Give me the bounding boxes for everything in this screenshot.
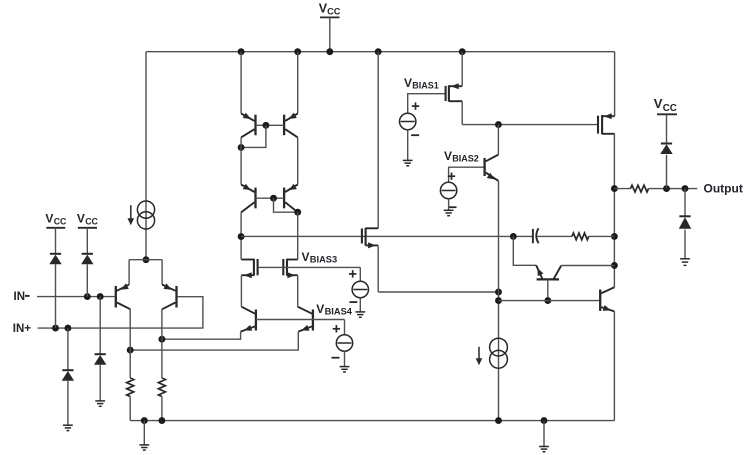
wire D4 anode down (99, 365, 101, 401)
ground G1 (403, 160, 413, 165)
wire R3 to output node (589, 235, 615, 237)
wire IN+ down to D3 (67, 328, 69, 370)
wire VS1 to ground (407, 130, 409, 161)
junction base tie lower (270, 195, 277, 202)
diode D4 (ground to IN-) (94, 354, 106, 365)
junction out/D5 (663, 185, 670, 192)
label VCC output (654, 96, 677, 114)
wire VCC2 to D2 (86, 228, 88, 254)
wire R1 to bottom rail (129, 397, 131, 421)
label VCC top (319, 2, 341, 17)
transistor Q1 input PNP (IN-) (116, 283, 131, 309)
label VBIAS4 (316, 302, 353, 317)
transistor Q10 NPN clamp (536, 265, 561, 279)
diode D6 (ground to output) (679, 216, 691, 229)
svg-text:BIAS4: BIAS4 (325, 307, 353, 317)
transistor Q4 mirror PNP upper-right (284, 113, 298, 138)
transistor Q9 NPN VBIAS2 (485, 155, 499, 181)
wire Q8 emitter to R1 node (130, 332, 298, 351)
wire M1 source to rail (461, 52, 463, 86)
wire D6 anode down (684, 230, 686, 259)
junction Q8emitter/R1 (127, 347, 134, 354)
transistor Q8 NPN second stage right (298, 307, 313, 332)
wire base line down to VS4 (344, 320, 346, 335)
svg-text:CC: CC (85, 216, 98, 226)
voltage source VS1 VBIAS1 (400, 102, 420, 135)
label Output (704, 182, 743, 196)
svg-text:CC: CC (327, 6, 341, 16)
current source I1 (128, 201, 155, 229)
label VBIAS1 (404, 76, 439, 91)
junction Q10base/node B (544, 297, 551, 304)
junction input pair common emitter node (143, 256, 150, 263)
svg-text:CC: CC (54, 216, 67, 226)
junction gate node at left column (238, 233, 245, 240)
svg-text:IN: IN (14, 291, 26, 303)
wire D3 anode down (67, 381, 69, 425)
voltage source VS3 VBIAS3 (349, 270, 368, 302)
svg-text:IN+: IN+ (13, 323, 32, 335)
wire M1 drain down (461, 101, 463, 124)
wire M3 source to node B (378, 291, 498, 293)
ground G6 (95, 401, 105, 406)
wire R2 to bottom rail (161, 397, 163, 421)
wire Q11 emitter down (613, 311, 615, 420)
ground G4 (340, 367, 350, 372)
junction rail/M1 source (459, 48, 466, 55)
junction M2gate/Q9 collector (495, 121, 502, 128)
wire D2 anode to IN- (86, 264, 88, 296)
junction Q7emitter/R2 (158, 336, 165, 343)
diode D1 (IN+ to VCC) (49, 254, 61, 264)
junction IN-/D2 (84, 293, 91, 300)
label VBIAS3 (302, 250, 338, 265)
wire Q3 collector to Q5 emitter (240, 137, 242, 184)
wire rail to Q3 emitter (240, 52, 242, 114)
junction IN-/D4 (97, 293, 104, 300)
ground G3 (355, 312, 365, 317)
wire Q7/Q8 base line to VBIAS4 (256, 319, 345, 321)
junction rail/M3 drain (375, 48, 382, 55)
junction rail/right-mirror column (294, 48, 301, 55)
junction output/comp RC (611, 233, 618, 240)
svg-text:V: V (654, 96, 663, 111)
wire Q7 emitter to R2 node (162, 332, 241, 340)
svg-text:V: V (302, 250, 310, 264)
wire Q2 collector down (161, 309, 163, 378)
junction node B upper (495, 289, 502, 296)
label IN- (14, 291, 30, 303)
wire cap to R3 (537, 235, 572, 237)
wire VCC top rail (146, 51, 615, 53)
capacitor C1 comp (533, 228, 539, 243)
junction node B lower (495, 297, 502, 304)
junction IN+/D1 (52, 325, 59, 332)
transistor Q6 mirror PNP lower-right (284, 184, 298, 213)
junction output/out-line (611, 185, 618, 192)
wire left emitter drop (128, 260, 130, 285)
wire IN- down to D4 (99, 297, 101, 354)
svg-text:V: V (404, 76, 412, 90)
svg-text:BIAS3: BIAS3 (310, 255, 337, 265)
svg-text:V: V (444, 149, 452, 163)
wire IN- net (37, 296, 115, 298)
label VCC left-2 (77, 212, 99, 227)
wire input pair emitter tee (129, 259, 162, 261)
junction bottom/I2 (495, 417, 502, 424)
wire rail right corner down to M2 source (614, 52, 616, 117)
wire Q5/Q6 base tie (256, 197, 285, 199)
wire base tie down to Q6 collector (274, 198, 298, 212)
wire M3 source down (377, 245, 379, 292)
voltage source VS2 VBIAS2 (440, 173, 456, 208)
resistor R2 (158, 378, 165, 397)
junction bottom/G8 (541, 417, 548, 424)
wire VCC to D5 (666, 114, 668, 143)
junction rail/VCC stem (326, 48, 333, 55)
transistor Q2 input PNP (IN+) (162, 283, 177, 309)
svg-text:Output: Output (704, 182, 743, 196)
wire VS4 to ground (344, 351, 346, 366)
wire gate line down to VS3 (359, 267, 361, 281)
wire G8 stem (543, 421, 545, 447)
wire VS2 to Q9 base (449, 167, 485, 182)
svg-text:V: V (45, 212, 53, 226)
junction base tie upper (262, 122, 269, 129)
svg-text:CC: CC (663, 103, 677, 114)
wire output down to D6 (684, 189, 686, 217)
svg-text:BIAS2: BIAS2 (452, 154, 479, 164)
junction out/D6 (682, 185, 689, 192)
power VCC bar left-1 (46, 227, 65, 229)
transistor M5 mosfet right (283, 259, 297, 278)
wire M5 source down to Q8 collector (297, 275, 299, 307)
wire Q9 collector up (497, 125, 499, 155)
voltage source VS4 VBIAS4 (332, 325, 353, 358)
label VBIAS2 (444, 149, 479, 164)
wire node-A gate line (241, 235, 533, 237)
power VCC bar left-2 (78, 227, 97, 229)
wire Q5 collector down to gate node (240, 212, 242, 259)
diode D2 (IN- to VCC) (81, 254, 93, 264)
wire D1 anode to IN+ (55, 264, 57, 328)
label IN+ (13, 323, 32, 335)
wire Q6 collector down to M5 drain (297, 212, 299, 259)
wire VBIAS3 gate line (258, 266, 361, 268)
wire node-A branch to Q10 emitter (513, 236, 536, 265)
wire rail to Q4 emitter (297, 52, 299, 114)
ground G9 (680, 259, 690, 266)
ground G2 (444, 210, 454, 215)
svg-text:BIAS1: BIAS1 (412, 81, 439, 91)
wire output node to R4 (614, 188, 630, 190)
transistor M1 PMOS VBIAS1 (446, 83, 463, 101)
resistor R4 output (631, 185, 649, 192)
wire left column from rail to input pair node (145, 52, 147, 260)
transistor M2 PMOS output (598, 113, 615, 134)
wire M4 source down to Q7 collector (240, 275, 242, 307)
power VCC bar output (657, 113, 677, 115)
junction bottom/G7 (141, 417, 148, 424)
transistor M4 mosfet left (241, 259, 257, 278)
power VCC top symbol (320, 17, 340, 51)
transistor Q5 mirror PNP lower-left (241, 184, 255, 213)
junction rail/left-mirror column (238, 48, 245, 55)
wire base tie down to Q3 collector (241, 125, 266, 147)
ground G5 (63, 425, 73, 430)
wire Q4 collector to Q6 emitter (297, 137, 299, 184)
wire bottom ground rail (130, 420, 614, 422)
wire M1 drain to M2 gate (462, 124, 598, 126)
wire IN+ net to Q2 base loop (38, 297, 203, 328)
transistor Q11 NPN output (600, 287, 614, 311)
diode D3 (ground to IN+) (62, 370, 74, 381)
ground G8 (539, 447, 549, 452)
transistor Q7 NPN second stage left (241, 307, 256, 332)
wire D5 anode to output (666, 155, 668, 189)
resistor R3 comp (572, 233, 589, 240)
wire VS1 to M1 gate (408, 94, 446, 114)
wire VCC1 to D1 (55, 228, 57, 254)
wire Q10 base down (547, 279, 549, 300)
wire Q3/Q4 base tie (256, 124, 285, 126)
wire M2 drain down output node (613, 134, 615, 287)
junction Q6 collector node (294, 209, 301, 216)
svg-text:V: V (316, 302, 324, 316)
diode D5 (output to VCC) (660, 144, 672, 155)
wire Q1 collector down (129, 309, 131, 378)
wire Q9 emitter down through current source I2 to bottom rail (498, 181, 500, 421)
transistor Q3 mirror PNP upper-left (241, 113, 255, 138)
label VCC left-1 (45, 212, 67, 227)
wire R4 to output pin (649, 188, 698, 190)
resistor R1 (127, 378, 134, 397)
current source I2 (476, 338, 508, 368)
junction IN+/D3 (64, 325, 71, 332)
junction output/Q10 collector (611, 262, 618, 269)
wire node B to Q11 base (499, 300, 600, 302)
wire Q10 collector to output node (561, 265, 614, 267)
ground G7 (139, 445, 149, 450)
wire M3 drain from rail (377, 52, 379, 229)
wire VS3 to ground (359, 298, 361, 312)
svg-text:V: V (77, 212, 85, 226)
wire G7 stem (143, 421, 145, 445)
wire right emitter drop (161, 260, 163, 285)
junction Q3 collector node (238, 144, 245, 151)
wire VS2 to ground (448, 199, 450, 210)
junction bottom/R2 (158, 417, 165, 424)
junction node-A/comp branch (510, 233, 517, 240)
transistor M3 NMOS second stage (362, 228, 378, 249)
